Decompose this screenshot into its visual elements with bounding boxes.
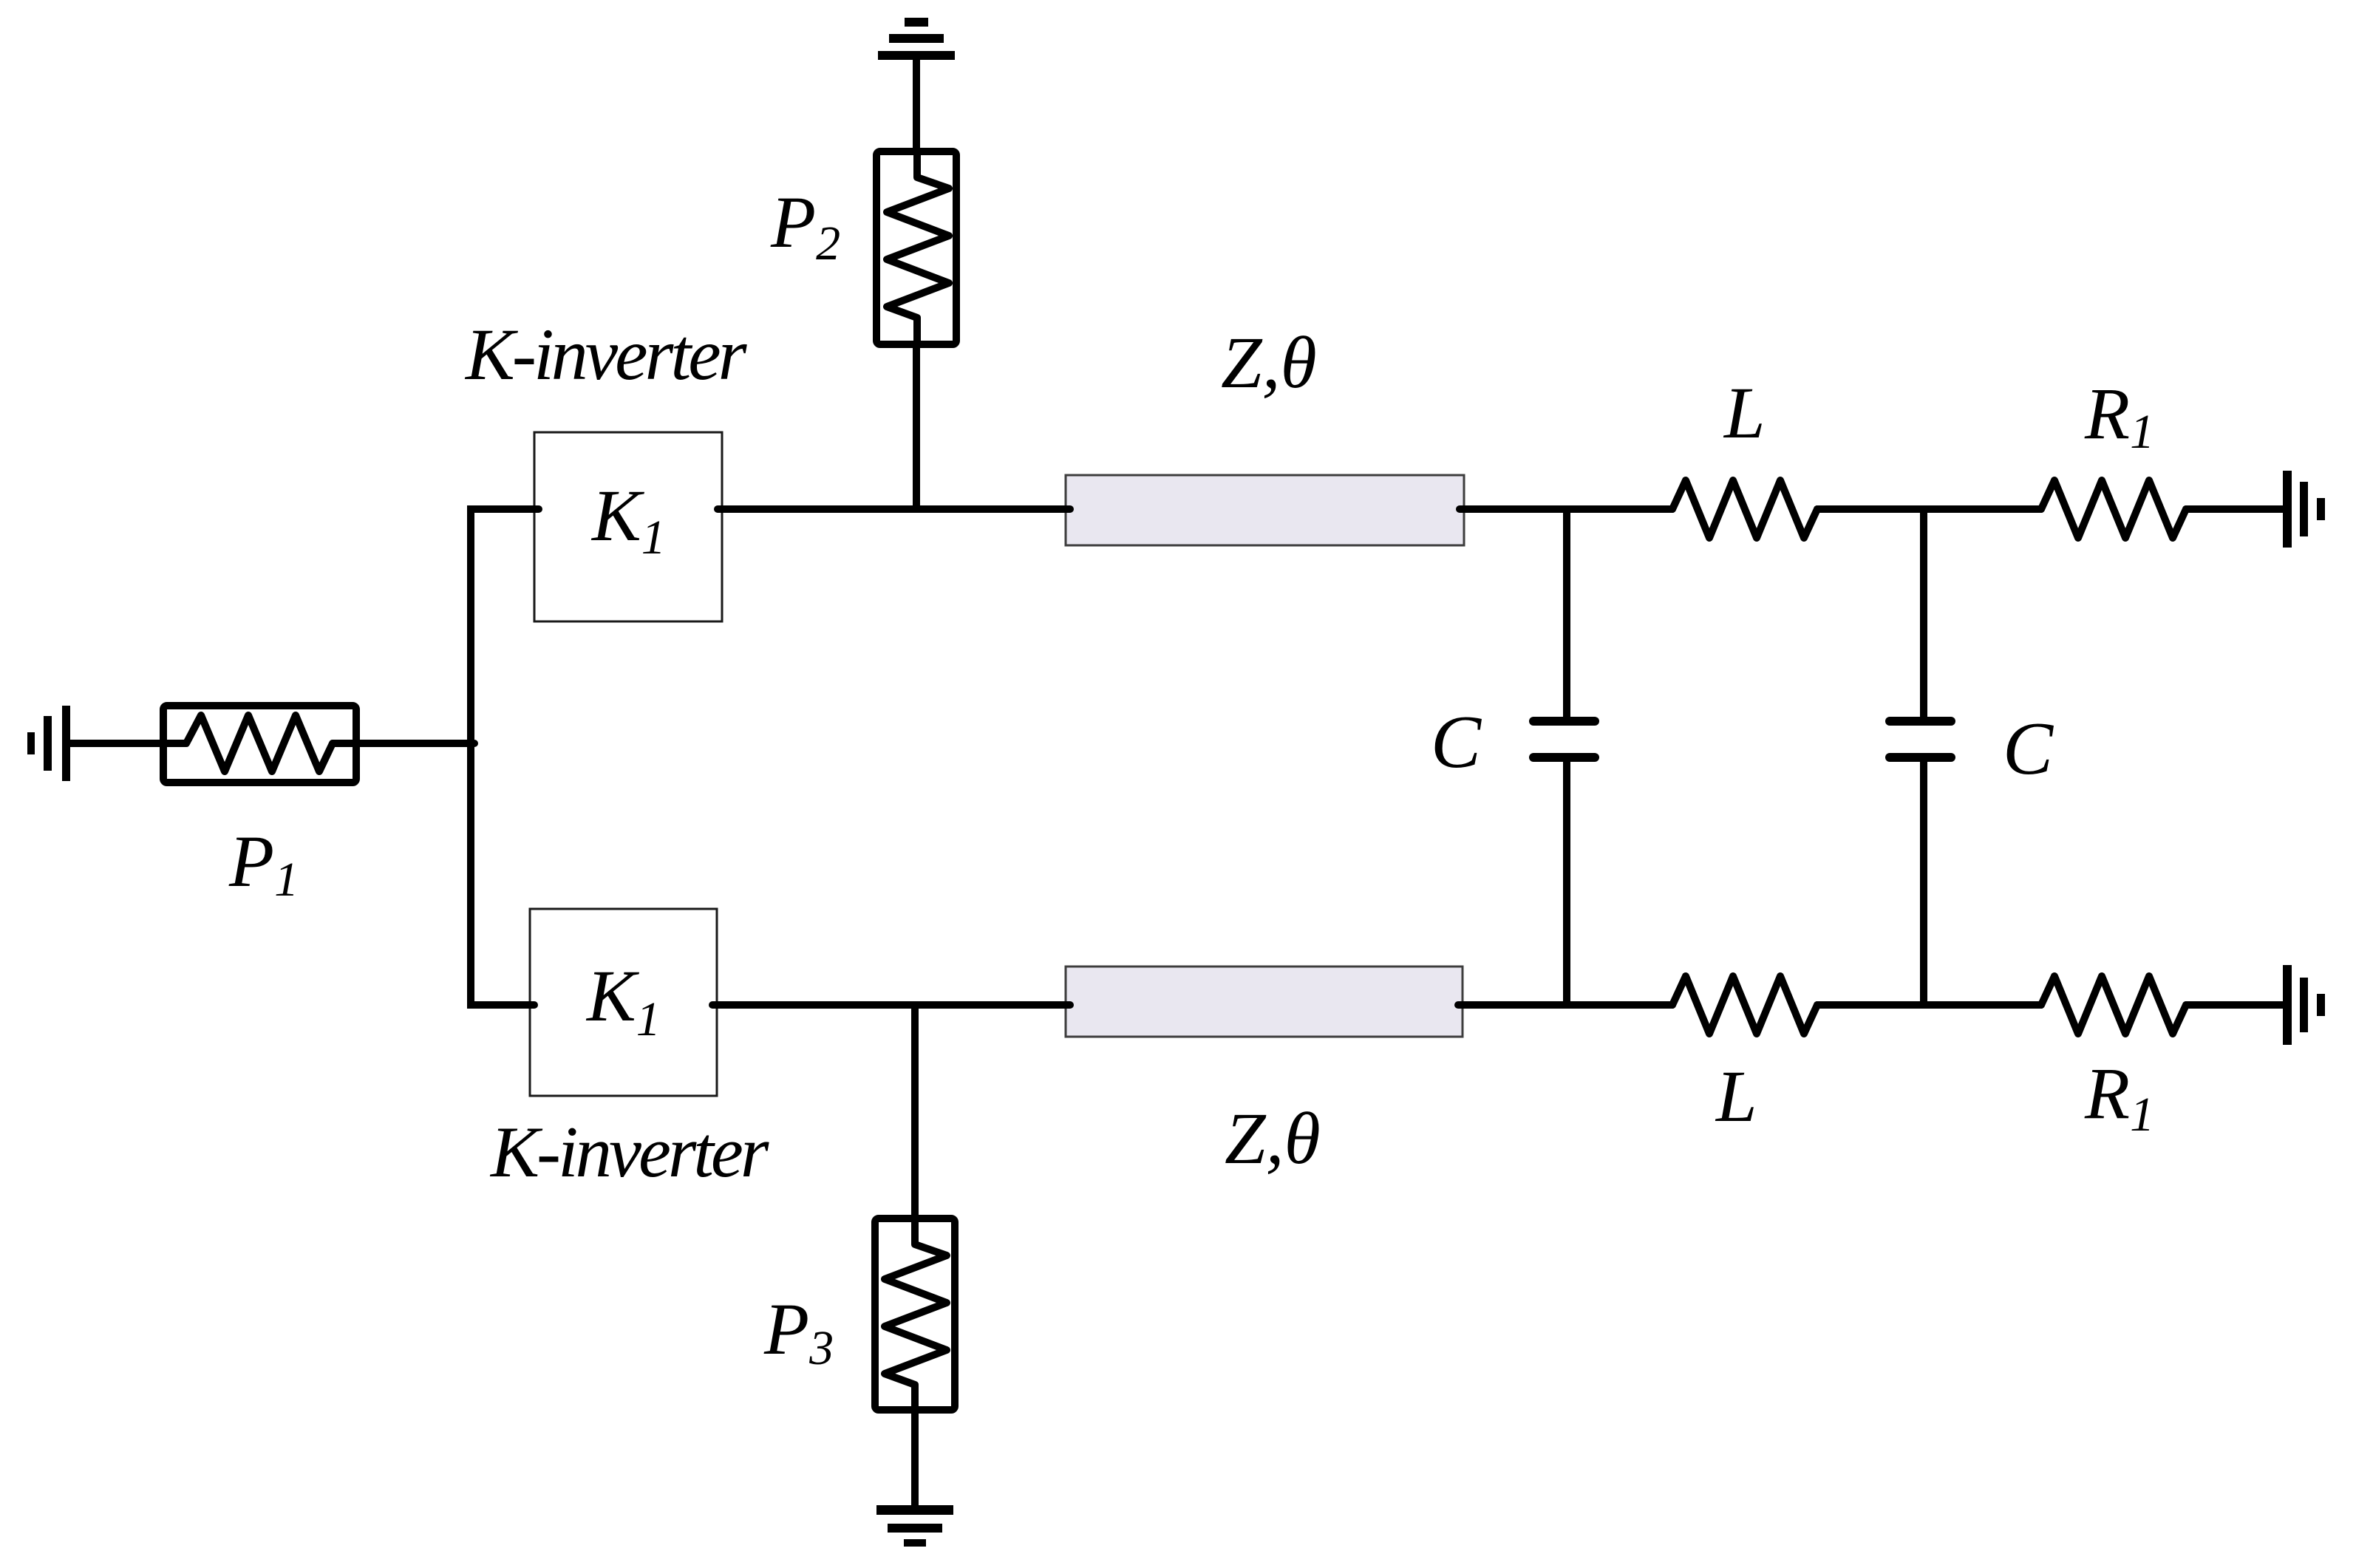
svg-text:K-inverter: K-inverter <box>489 1112 769 1193</box>
wire P3 to ground <box>911 1410 919 1505</box>
ground (above P2) <box>878 18 955 60</box>
wire R1 to right ground (top) <box>2186 505 2283 513</box>
ground (bottom right) <box>2283 965 2325 1045</box>
wire TL to L (bottom), through node C1 foot <box>1458 1001 1672 1009</box>
transmission line Z,theta (bottom) <box>1066 967 1463 1037</box>
ground (top right) <box>2283 471 2325 548</box>
node B: wire down to capacitor C2 <box>1920 509 1927 721</box>
svg-text:L: L <box>1723 372 1766 454</box>
resistor P2 (port resistor box, vertical) <box>876 151 956 344</box>
svg-text:K-inverter: K-inverter <box>464 313 748 395</box>
wire split to bottom K-inverter <box>471 1001 534 1009</box>
wire C2 to bottom branch <box>1920 757 1927 1005</box>
svg-text:C: C <box>1431 701 1482 784</box>
wire C1 to bottom branch <box>1563 757 1570 1005</box>
svg-text:L: L <box>1715 1055 1757 1137</box>
wire node to P2 <box>913 344 920 509</box>
svg-text:C: C <box>2003 707 2054 791</box>
wire P2 to ground <box>913 60 920 151</box>
wire node to P3 <box>911 1005 919 1218</box>
K-inverter box K1 (bottom) <box>530 909 717 1096</box>
wire L to R1 (bottom) <box>1817 1001 2041 1009</box>
node split vertical wire <box>467 509 474 1005</box>
capacitor C (right shunt) <box>1890 721 1951 757</box>
inductor L (top) <box>1672 480 1817 538</box>
K-inverter box K1 (top) <box>534 432 722 621</box>
wire top K1 to transmission line <box>718 505 1070 513</box>
resistor P1 (port resistor box) <box>163 706 356 783</box>
ground (below P3) <box>876 1505 953 1547</box>
capacitor C (left shunt) <box>1533 721 1595 757</box>
resistor P3 (port resistor box, vertical) <box>875 1218 955 1410</box>
wire bottom K1 to transmission line <box>712 1001 1070 1009</box>
resistor R1 (bottom) <box>2041 976 2186 1034</box>
inductor L (bottom) <box>1672 976 1817 1034</box>
ground (port 1, left) <box>27 706 70 781</box>
svg-text:Z,θ: Z,θ <box>1225 1097 1321 1179</box>
wire L to R1 (top), through node B <box>1817 505 2041 513</box>
transmission line Z,theta (top) <box>1066 475 1464 545</box>
wire TL to L (top), through node A <box>1460 505 1672 513</box>
wire split to top K-inverter <box>471 505 539 513</box>
wire P1 to split node <box>356 740 474 747</box>
wire R1 to right ground (bottom) <box>2186 1001 2283 1009</box>
svg-text:Z,θ: Z,θ <box>1221 321 1317 403</box>
resistor R1 (top) <box>2041 480 2186 538</box>
wire left-ground to P1 <box>70 740 167 747</box>
node A: wire down to capacitor C1 <box>1563 509 1570 721</box>
